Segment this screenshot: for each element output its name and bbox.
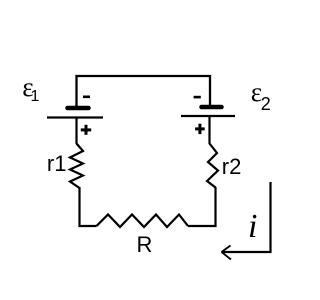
wire left branch lower lead and bottom-left corner	[80, 187, 97, 226]
label r2	[222, 154, 242, 180]
plus sign of E2	[195, 127, 205, 130]
wire E1 bottom lead	[75, 118, 77, 145]
wire bottom-right corner and right branch lower lead	[188, 187, 216, 226]
current arrow i (L-shaped with open arrowhead)	[222, 182, 271, 252]
label EMF e1	[22, 72, 33, 103]
wire E2 bottom lead	[208, 116, 210, 144]
battery E1 negative plate (thick short bar)	[68, 106, 89, 111]
resistor R (horizontal zigzag)	[97, 215, 189, 228]
label EMF e2	[251, 77, 262, 108]
battery E2 negative plate (thick short bar)	[202, 105, 222, 110]
label i	[248, 208, 257, 246]
wire top loop connecting battery tops	[77, 76, 211, 106]
resistor r2 (zigzag)	[207, 144, 218, 188]
minus sign of E2	[194, 96, 201, 99]
battery E2 positive plate (long thin bar)	[181, 115, 235, 117]
battery E1 positive plate (long thin bar)	[47, 116, 103, 118]
resistor r1 (zigzag)	[70, 144, 83, 189]
label R	[137, 232, 153, 258]
minus sign of E1	[83, 96, 90, 99]
plus sign of E1	[81, 128, 91, 131]
label r1	[47, 151, 67, 177]
